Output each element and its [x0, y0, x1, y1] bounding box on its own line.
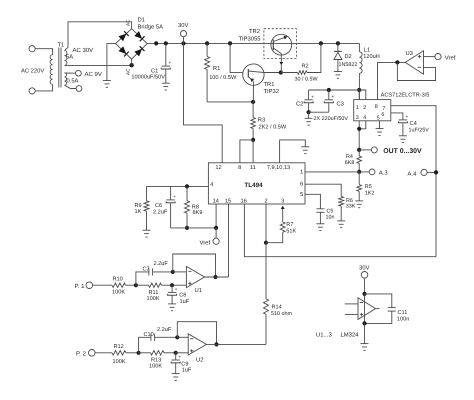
node TR1 base column junction	[228, 41, 232, 45]
node R8 top junction	[185, 184, 189, 188]
wire TR1 base	[230, 43, 243, 72]
svg-text:2X 220uF/50V: 2X 220uF/50V	[314, 116, 349, 122]
node R12 junction	[137, 351, 141, 355]
svg-text:510 ohm: 510 ohm	[271, 311, 292, 317]
svg-text:AC 220V: AC 220V	[21, 68, 44, 75]
svg-text:30V: 30V	[178, 22, 188, 29]
node L1 output junction	[357, 88, 361, 92]
svg-text:4: 4	[210, 182, 213, 188]
svg-text:+: +	[406, 114, 409, 119]
svg-text:A.4: A.4	[408, 171, 418, 178]
svg-text:AC 30V: AC 30V	[73, 47, 94, 54]
ground C5	[316, 223, 324, 225]
ground LM324	[361, 343, 369, 345]
svg-text:U3: U3	[406, 50, 413, 57]
node TR1 emitter junction	[251, 100, 255, 104]
svg-text:1N5822: 1N5822	[339, 62, 358, 68]
svg-text:100K: 100K	[112, 290, 125, 296]
svg-text:1uF/25V: 1uF/25V	[409, 127, 430, 133]
node U1 output junction	[213, 275, 217, 279]
node A.4 junction	[434, 170, 438, 174]
wire to U1 noninverting input	[172, 284, 186, 286]
wire R1 bottom to TR1 emitter node	[207, 101, 253, 103]
svg-text:OUT 0...30V: OUT 0...30V	[383, 148, 422, 155]
terminal P.1	[86, 282, 93, 289]
ground C1	[162, 82, 170, 84]
svg-text:C5: C5	[327, 208, 334, 214]
capacitor C9	[175, 353, 177, 360]
node pin 2 junction	[264, 241, 268, 245]
resistor R1	[206, 43, 208, 56]
wire secondary 30V bottom to bridge AC	[65, 64, 132, 66]
svg-text:A.3: A.3	[379, 170, 389, 177]
node C3 junction	[327, 88, 331, 92]
terminal Vref output	[435, 54, 441, 60]
svg-text:11: 11	[250, 165, 256, 171]
wire secondary 9V bottom	[65, 85, 77, 88]
node U3 input junction	[395, 60, 399, 64]
svg-text:2.2uF: 2.2uF	[154, 261, 169, 267]
svg-text:TR1: TR1	[264, 82, 275, 88]
wire LM324 to ground	[364, 323, 366, 343]
wire TR1 collector to R2 node	[264, 72, 281, 74]
svg-text:C11: C11	[398, 310, 408, 316]
resistor R9	[146, 186, 148, 200]
node C1 junction	[164, 41, 168, 45]
svg-text:R7: R7	[286, 222, 293, 228]
resistor R5	[358, 172, 360, 185]
wire TL494 pin 2 down	[265, 204, 267, 243]
svg-text:6K8: 6K8	[345, 160, 355, 166]
svg-text:C6: C6	[155, 203, 162, 209]
svg-text:P. 2: P. 2	[76, 351, 87, 358]
transformer T1 secondary winding 30V	[65, 51, 67, 66]
capacitor C7	[136, 272, 149, 285]
terminal 30V	[180, 30, 186, 36]
svg-text:12: 12	[215, 165, 221, 171]
ground C9	[172, 373, 180, 375]
svg-text:10000uF/50V: 10000uF/50V	[131, 73, 165, 80]
svg-text:100n: 100n	[397, 316, 409, 322]
wire ACS712 pin 5 ground	[379, 121, 381, 129]
LM324 output stub	[376, 308, 380, 310]
transistor TR2	[271, 34, 292, 55]
svg-text:Vref: Vref	[445, 54, 456, 61]
bridge diode bottom-left	[119, 46, 127, 54]
svg-text:100K: 100K	[147, 296, 160, 302]
terminal 30V LM324	[361, 272, 368, 279]
svg-text:R9: R9	[135, 203, 142, 209]
svg-text:1K2: 1K2	[365, 190, 375, 196]
node R8 bottom junction	[185, 226, 189, 230]
svg-text:R10: R10	[113, 277, 123, 283]
wire ACS712 pins 3-4 output	[358, 121, 360, 150]
node C2 bottom junction	[307, 110, 311, 114]
wire TL494 pin 15 to U1 output	[228, 204, 230, 277]
svg-text:C10: C10	[144, 332, 154, 338]
svg-text:TIP3055: TIP3055	[239, 36, 261, 43]
wire 30V rail	[147, 42, 359, 44]
diode D2 1N5822	[337, 43, 339, 51]
capacitor C2	[308, 90, 310, 100]
LM324 input stubs	[345, 303, 358, 305]
bridge diode bottom-right	[134, 49, 142, 57]
svg-text:5: 5	[377, 115, 380, 121]
svg-text:2.2uF: 2.2uF	[153, 209, 168, 215]
node divider junction pin1	[357, 170, 361, 174]
node bridge positive lead	[154, 41, 158, 45]
resistor R8	[186, 186, 188, 200]
wire primary bottom	[35, 84, 52, 91]
resistor R4	[358, 150, 360, 156]
wire to Vref terminal	[215, 228, 217, 238]
svg-text:+: +	[311, 94, 314, 99]
resistor R10	[93, 284, 112, 286]
wire TL494 pin 6 to R6	[305, 184, 341, 196]
svg-text:+: +	[173, 194, 176, 199]
node R10 junction	[134, 283, 138, 287]
node pins 3-4 junction	[357, 127, 361, 131]
svg-text:+: +	[332, 94, 335, 99]
svg-text:100 / 0.5W: 100 / 0.5W	[209, 74, 237, 81]
resistor R14	[265, 243, 267, 299]
svg-text:T1: T1	[58, 43, 65, 49]
capacitor C3	[328, 90, 330, 100]
op-amp LM324 symbol	[358, 298, 376, 320]
svg-text:30 / 0.5W: 30 / 0.5W	[295, 76, 319, 82]
wire bridge negative to ground	[107, 44, 116, 81]
node U2 inverting junction	[175, 335, 179, 339]
wire to U2 inverting input	[177, 336, 188, 338]
wire 30V to LM324	[364, 278, 366, 294]
svg-text:15: 15	[225, 199, 231, 205]
wire divider to A.3	[359, 171, 369, 173]
svg-text:2.2uF: 2.2uF	[157, 327, 172, 333]
svg-text:AC 9V: AC 9V	[85, 71, 102, 78]
svg-text:C7: C7	[143, 267, 150, 273]
node LM324 V- junction	[362, 321, 366, 325]
svg-text:D1: D1	[138, 18, 145, 24]
ground C2 C3	[305, 117, 313, 119]
svg-text:R2: R2	[302, 64, 309, 70]
resistor R7	[266, 232, 283, 243]
wire TL494 pin 4 rail	[147, 185, 209, 187]
svg-text:Bridge 5A: Bridge 5A	[138, 23, 164, 30]
dashed box TR2	[264, 29, 297, 59]
capacitor C8	[171, 285, 173, 292]
svg-text:16: 16	[241, 199, 247, 205]
svg-text:8K9: 8K9	[193, 210, 203, 216]
terminal A.3	[369, 169, 375, 175]
svg-text:1K: 1K	[135, 209, 142, 215]
svg-text:TR2: TR2	[249, 28, 260, 35]
ground C8	[168, 303, 176, 305]
ground D2	[334, 71, 342, 73]
wire A.4 to sense line	[427, 171, 436, 173]
svg-text:D2: D2	[345, 54, 352, 60]
transformer T1 primary winding	[50, 55, 52, 85]
svg-text:+: +	[175, 286, 178, 291]
wire C2 C3 bottom	[309, 111, 329, 113]
svg-text:TL494: TL494	[244, 182, 263, 189]
svg-text:4: 4	[363, 115, 366, 121]
terminal Vref	[213, 238, 219, 244]
terminal OUT	[371, 147, 377, 153]
svg-text:100K: 100K	[113, 359, 126, 365]
resistor R12	[95, 352, 112, 354]
terminal AC 9V top	[76, 70, 82, 76]
node LM324 V+ junction	[362, 292, 366, 296]
svg-text:C4: C4	[410, 120, 418, 127]
bridge diode top-right	[134, 31, 142, 39]
svg-text:1: 1	[356, 105, 359, 111]
ground C4	[399, 135, 407, 137]
svg-text:LM324: LM324	[341, 331, 360, 338]
wire primary top	[35, 49, 52, 55]
wire secondary 9V top	[65, 72, 76, 74]
svg-text:C9: C9	[181, 361, 188, 367]
node Vref junction	[214, 226, 218, 230]
wire secondary 30V top to bridge AC	[65, 22, 132, 51]
svg-text:6: 6	[300, 182, 303, 188]
transformer T1 primary terminal bottom	[29, 88, 35, 94]
svg-text:AC: AC	[126, 68, 131, 75]
svg-text:C2: C2	[296, 100, 303, 107]
svg-text:R12: R12	[114, 344, 124, 350]
svg-text:R5: R5	[365, 184, 372, 190]
wire U2 feedback loop	[177, 322, 216, 345]
transformer T1 core	[58, 48, 60, 88]
wire U3 plus to Vref terminal	[424, 56, 435, 58]
node R3 bottom junction	[251, 138, 255, 142]
wire output filter rail	[309, 90, 366, 100]
wire U2 output to R14	[206, 343, 266, 345]
svg-text:R13: R13	[151, 357, 161, 363]
transformer T1 primary terminal top (AC 220V)	[29, 46, 35, 52]
ground pins 7,9,10,13	[301, 146, 309, 148]
capacitor C6	[170, 186, 172, 200]
node U2 output junction	[214, 342, 218, 346]
capacitor C4	[399, 119, 407, 121]
IC U TL494 body	[208, 163, 305, 204]
wire U1 output	[205, 276, 229, 278]
svg-text:2: 2	[363, 105, 366, 111]
svg-text:Vref: Vref	[200, 239, 211, 246]
svg-text:P. 1: P. 1	[75, 283, 86, 290]
op-amp U3	[405, 51, 423, 74]
svg-text:+: +	[178, 354, 181, 359]
ground bridge negative	[103, 80, 111, 82]
svg-text:ACS712ELCTR-3/5: ACS712ELCTR-3/5	[381, 91, 430, 98]
svg-text:120uH: 120uH	[363, 54, 379, 60]
svg-text:R3: R3	[258, 117, 265, 124]
svg-text:3: 3	[281, 199, 284, 205]
wire 30V to TL494 pin 12	[184, 43, 223, 162]
svg-text:AC: AC	[126, 19, 131, 26]
svg-text:U1: U1	[195, 287, 203, 294]
svg-text:R14: R14	[272, 305, 282, 311]
current sensor ACS712 body	[354, 100, 391, 121]
wire pins 7,9,10,13 to ground	[280, 140, 306, 163]
wire R3 to pin 8	[240, 140, 253, 163]
svg-text:0.5A: 0.5A	[67, 77, 79, 84]
svg-text:10n: 10n	[326, 215, 335, 221]
transformer T1 secondary winding 9V	[65, 73, 67, 85]
transistor TR1	[243, 64, 264, 85]
terminal P.2	[89, 350, 96, 357]
node U1 noninverting junction	[170, 283, 174, 287]
svg-text:3: 3	[356, 115, 359, 121]
wire Vref rail	[171, 227, 217, 229]
wire TL494 pin 14	[215, 204, 217, 228]
wire ACS712 pin 6 to C4	[391, 113, 403, 120]
svg-text:2K2 / 0.5W: 2K2 / 0.5W	[259, 124, 287, 131]
svg-text:5: 5	[300, 192, 303, 198]
wire to U2 noninverting input	[176, 352, 189, 354]
svg-text:14: 14	[213, 199, 219, 205]
svg-text:R1: R1	[213, 66, 220, 72]
svg-text:C8: C8	[179, 293, 186, 299]
svg-text:30V: 30V	[359, 264, 369, 271]
svg-text:6: 6	[381, 112, 384, 118]
node R1 junction	[205, 41, 209, 45]
op-amp U1	[186, 266, 204, 287]
svg-text:U1...3: U1...3	[316, 331, 332, 338]
ground ACS712 pin 5	[376, 128, 384, 130]
bridge rectifier D1 outline	[116, 29, 148, 59]
svg-text:L1: L1	[364, 47, 370, 53]
wire ACS712 pin 1 input	[358, 90, 360, 100]
wire U3 feedback	[397, 62, 435, 80]
svg-text:51K: 51K	[286, 229, 296, 235]
svg-text:1: 1	[300, 169, 303, 175]
resistor R3	[252, 102, 254, 118]
node R2 riser junction	[319, 41, 323, 45]
svg-text:+: +	[169, 60, 172, 65]
terminal AC 9V bottom	[76, 86, 82, 92]
resistor R13	[151, 351, 165, 355]
wire to U1 inverting input	[173, 271, 187, 273]
inductor L1	[358, 43, 360, 51]
resistor R6	[339, 196, 344, 206]
node TR2 emitter junction	[279, 70, 283, 74]
svg-text:8: 8	[375, 104, 378, 110]
capacitor C10	[139, 337, 151, 353]
svg-text:1uF: 1uF	[180, 299, 190, 305]
node U1 inverting junction	[171, 270, 175, 274]
svg-text:8: 8	[238, 165, 241, 171]
op-amp U2	[188, 334, 206, 355]
wire TR2 emitter down	[280, 54, 282, 73]
capacitor C5	[316, 208, 324, 210]
svg-text:2: 2	[264, 199, 267, 205]
wire TL494 pin 5 to C5	[305, 194, 320, 209]
capacitor C11	[365, 294, 392, 308]
svg-text:R11: R11	[149, 290, 159, 296]
capacitor C1	[165, 43, 167, 66]
wire TL494 pin 16 to current sense line	[244, 204, 436, 257]
ground R9	[143, 229, 151, 231]
node D2 junction	[336, 41, 340, 45]
wire U1 feedback loop	[173, 254, 216, 277]
resistor R11	[149, 283, 162, 287]
svg-text:TIP32: TIP32	[264, 88, 279, 95]
svg-text:U2: U2	[196, 357, 204, 364]
node OUT junction	[357, 148, 361, 152]
svg-text:1uF: 1uF	[182, 368, 192, 374]
wire ACS712 pin 8 to U3	[378, 62, 406, 99]
terminal A.4	[421, 169, 427, 175]
wire to OUT terminal	[359, 149, 371, 151]
wire R3 to pin 11	[252, 140, 254, 163]
svg-text:C3: C3	[337, 101, 344, 108]
node U2 noninverting junction	[174, 351, 178, 355]
wire ACS712 pin 7 to current sense	[391, 106, 436, 257]
svg-text:100K: 100K	[149, 364, 162, 370]
svg-text:33K: 33K	[346, 204, 356, 210]
svg-text:5A: 5A	[66, 55, 73, 61]
node bridge bottom AC junction	[129, 63, 133, 67]
resistor R2	[281, 72, 298, 74]
ground R6	[337, 220, 345, 222]
svg-text:7,9,10,13: 7,9,10,13	[267, 165, 290, 171]
wire LM324 power vertical	[364, 294, 366, 324]
node 30V junction	[181, 41, 185, 45]
ground R5	[355, 200, 363, 202]
bridge diode top-left	[119, 34, 127, 42]
wire TL494 pin 1 to divider	[305, 171, 359, 173]
